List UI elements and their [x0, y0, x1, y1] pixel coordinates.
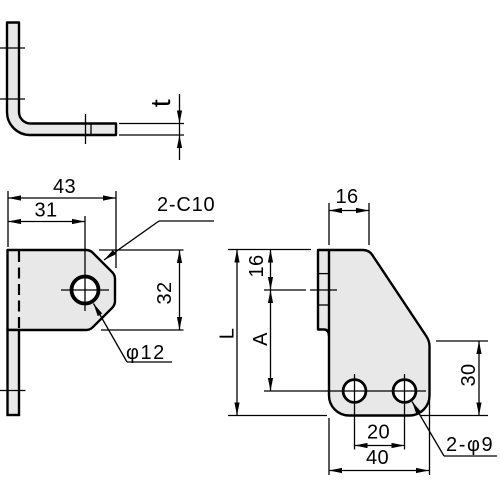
- svg-text:A: A: [250, 332, 272, 346]
- front view plate body with chamfers: [8, 250, 116, 330]
- dimension 16 side label: [246, 254, 268, 277]
- dimension L label: [217, 328, 239, 340]
- svg-text:40: 40: [366, 447, 389, 469]
- break tick on horizontal leg: [86, 114, 92, 144]
- dimension t line with arrows: [177, 94, 182, 160]
- dimension 16 top line with arrows: [329, 208, 369, 213]
- side view L-bracket body: [7, 23, 116, 136]
- svg-text:L: L: [217, 328, 239, 340]
- right view flange strip edge-on: [318, 250, 329, 336]
- hole right vertical centerline: [404, 374, 406, 450]
- svg-text:20: 20: [367, 422, 390, 444]
- dimension L extension lines: [228, 250, 327, 416]
- hole phi9 left: [343, 380, 366, 403]
- dimension 31 label: [34, 200, 57, 222]
- holes horizontal centerline: [264, 390, 426, 392]
- bend line dashed: [18, 251, 20, 329]
- svg-text:2-C10: 2-C10: [157, 194, 215, 216]
- break tick on lower leg: [0, 390, 26, 392]
- break tick upper on vertical leg: [0, 47, 25, 49]
- front view lower leg edge-on: [8, 330, 20, 415]
- dimension 31 line with arrows: [8, 219, 85, 224]
- dimension 20 line with arrows: [355, 443, 405, 448]
- svg-text:16: 16: [246, 254, 268, 277]
- dimension L line with arrows: [234, 250, 239, 416]
- chamfer leader 2-C10: [104, 221, 214, 260]
- dimension 30 label: [458, 363, 480, 386]
- hole phi12: [72, 277, 99, 304]
- svg-text:30: 30: [458, 363, 480, 386]
- svg-text:φ12: φ12: [126, 342, 166, 364]
- break line at 16/A boundary: [264, 289, 337, 291]
- svg-text:2-φ9: 2-φ9: [446, 434, 494, 456]
- dimension 30 line with arrows: [476, 341, 481, 416]
- dimension 16 top extension lines: [329, 203, 369, 245]
- dimension 43 line with arrows: [8, 195, 116, 200]
- dimension 40 extension lines: [329, 398, 430, 475]
- chamfer label 2-C10: [157, 194, 215, 216]
- hole leader phi12: [94, 304, 173, 363]
- right view plate body: [329, 250, 430, 416]
- dimension A label: [250, 332, 272, 346]
- dimension 40 label: [366, 447, 389, 469]
- holes leader 2-phi9: [412, 402, 497, 457]
- dimension 16 top label: [335, 186, 358, 208]
- dimension 40 line with arrows: [329, 468, 429, 473]
- dimension 32 label: [154, 281, 176, 304]
- dimension t extension lines: [119, 124, 184, 136]
- hole left vertical centerline: [354, 374, 356, 450]
- dimension 16 and A shared line with arrows: [268, 250, 273, 392]
- dimension 43 extension lines: [8, 191, 116, 268]
- svg-text:t: t: [145, 99, 176, 107]
- strip break ticks: [318, 274, 329, 305]
- hole phi9 right: [393, 380, 416, 403]
- hole phi12 centerlines: [61, 216, 109, 311]
- dimension t label: [145, 99, 176, 107]
- svg-text:32: 32: [154, 281, 176, 304]
- break tick lower on vertical leg: [0, 98, 25, 100]
- svg-text:16: 16: [335, 186, 358, 208]
- dimension 20 label: [367, 422, 390, 444]
- holes label 2-phi9: [446, 434, 494, 456]
- dimension 32 line with arrows: [177, 250, 182, 330]
- svg-text:31: 31: [34, 200, 57, 222]
- hole label phi12: [126, 342, 166, 364]
- dimension 43 label: [53, 176, 76, 198]
- dimension 32 extension lines: [99, 250, 184, 330]
- dimension 30 extension lines: [420, 341, 488, 416]
- svg-text:43: 43: [53, 176, 76, 198]
